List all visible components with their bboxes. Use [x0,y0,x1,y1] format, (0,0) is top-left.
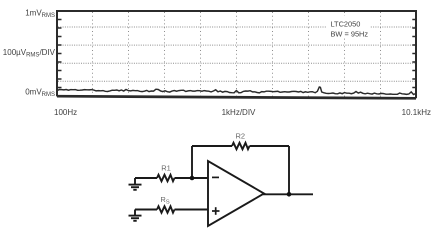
svg-text:R2: R2 [236,132,246,141]
svg-text:LTC2050: LTC2050 [331,20,361,29]
svg-text:RS: RS [160,195,169,206]
svg-text:1mVRMS: 1mVRMS [25,9,55,20]
svg-text:10.1kHz: 10.1kHz [402,108,431,117]
svg-text:100Hz: 100Hz [54,108,77,117]
svg-text:1kHz/DIV: 1kHz/DIV [222,108,256,117]
svg-text:100µVRMS/DIV: 100µVRMS/DIV [3,48,56,59]
svg-text:R1: R1 [161,164,171,173]
svg-text:0mVRMS: 0mVRMS [25,88,55,99]
svg-text:BW = 95Hz: BW = 95Hz [331,30,369,39]
